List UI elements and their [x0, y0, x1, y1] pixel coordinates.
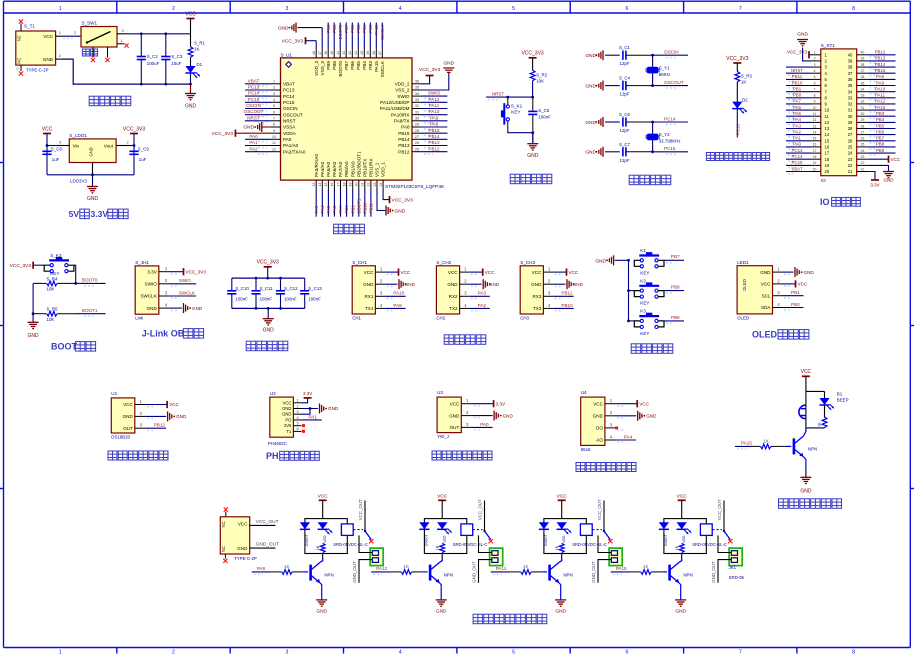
svg-text:2: 2	[172, 649, 175, 654]
svg-text:1uF: 1uF	[139, 157, 147, 162]
svg-text:JK1: JK1	[729, 565, 737, 570]
svg-text:PB5: PB5	[356, 24, 361, 33]
ST1 pin 11	[811, 115, 821, 117]
svg-text:Vout: Vout	[104, 143, 114, 148]
svg-text:PA9: PA9	[876, 80, 885, 85]
wire and net OSCOUT	[653, 85, 689, 87]
svg-text:VCC: VCC	[677, 494, 688, 500]
svg-text:PA12: PA12	[376, 566, 387, 571]
svg-text:13: 13	[813, 124, 817, 128]
svg-text:PC14: PC14	[792, 154, 804, 159]
svg-text:VSS_1: VSS_1	[375, 162, 380, 177]
svg-text:PB7: PB7	[344, 24, 349, 33]
alarm emitter to ground	[804, 457, 806, 471]
svg-text:PA4: PA4	[320, 205, 325, 214]
svg-text:VDD_2: VDD_2	[395, 82, 410, 87]
svg-text:6: 6	[814, 81, 816, 85]
svg-text:PA9: PA9	[430, 115, 439, 120]
svg-text:SWIO: SWIO	[397, 94, 410, 99]
svg-text:NC: NC	[221, 546, 226, 552]
svg-text:26: 26	[415, 141, 419, 145]
svg-text:PA15: PA15	[875, 105, 886, 110]
svg-text:3: 3	[59, 140, 61, 145]
terminal block PA8	[370, 548, 383, 566]
capacitor S_C5	[532, 97, 534, 111]
svg-text:42: 42	[348, 51, 352, 55]
svg-text:31: 31	[848, 108, 853, 113]
svg-text:VSS_2: VSS_2	[395, 88, 410, 93]
svg-text:8: 8	[852, 649, 855, 654]
svg-text:6: 6	[273, 110, 275, 114]
svg-text:PB8: PB8	[671, 285, 680, 290]
svg-text:10uF: 10uF	[171, 61, 181, 66]
svg-text:GND_OUT: GND_OUT	[711, 561, 716, 583]
svg-text:17: 17	[813, 149, 817, 153]
transistor NPN PA15	[681, 554, 683, 559]
U1 pin 5 (OSCIN)	[271, 108, 281, 110]
J-Link JH1 body	[135, 266, 159, 314]
ground GND relay PA11	[555, 599, 566, 601]
svg-text:23: 23	[848, 157, 853, 162]
wire LED D2 to PC13	[736, 108, 738, 137]
ground GND below U1 (VSS_1)	[385, 206, 387, 216]
svg-text:23: 23	[373, 183, 377, 187]
relay switch PA11	[592, 529, 602, 531]
svg-text:6: 6	[625, 6, 628, 12]
ground GND relay PA15	[675, 599, 686, 601]
svg-text:IO: IO	[820, 197, 830, 207]
svg-text:S_R2: S_R2	[536, 72, 548, 77]
svg-text:1N4007: 1N4007	[544, 534, 548, 546]
svg-text:PA3: PA3	[314, 205, 319, 214]
U2 pin3 gnd join wire	[302, 409, 311, 415]
net BOOT1 wire	[76, 313, 106, 315]
svg-text:SWCLK: SWCLK	[380, 24, 385, 40]
svg-text:5: 5	[512, 649, 515, 654]
ST1 pin 38	[857, 66, 868, 68]
svg-text:GND: GND	[449, 413, 460, 418]
svg-text:KEY: KEY	[640, 270, 649, 275]
ST1 pin 39	[857, 60, 868, 62]
svg-text:PB15: PB15	[875, 68, 886, 73]
svg-text:NRST: NRST	[791, 68, 803, 73]
svg-text:19: 19	[813, 161, 817, 165]
resistor S_R1	[190, 34, 192, 47]
svg-text:36: 36	[848, 77, 853, 82]
svg-text:SWIO: SWIO	[145, 282, 158, 287]
svg-text:PB5: PB5	[876, 123, 885, 128]
wire and net OSCIN	[653, 54, 689, 56]
wire and net PC15	[653, 151, 689, 153]
svg-text:U2: U2	[270, 391, 276, 396]
relay PA15 VCC_OUT wire	[723, 501, 725, 532]
svg-text:29: 29	[861, 118, 865, 122]
capacitor S_C12	[280, 278, 282, 291]
svg-text:S_CH3: S_CH3	[520, 260, 535, 265]
svg-text:30: 30	[415, 117, 419, 121]
ground GND filter	[267, 308, 269, 318]
svg-text:13: 13	[825, 126, 830, 131]
ST1 pin 18	[811, 158, 821, 160]
svg-text:GND: GND	[263, 328, 275, 334]
svg-text:SRD-05: SRD-05	[729, 575, 745, 580]
svg-text:LED: LED	[682, 535, 686, 542]
ST1 pin 14	[811, 134, 821, 136]
U2 pin6 no-connect	[302, 430, 305, 433]
ST1 pin 8	[811, 97, 821, 99]
svg-text:PA2: PA2	[478, 303, 487, 308]
net PA12 base wire	[371, 571, 390, 573]
svg-text:5: 5	[512, 6, 515, 12]
connector TYPE-C-2P output body	[220, 517, 249, 554]
svg-text:PB5: PB5	[356, 61, 361, 70]
svg-text:2: 2	[273, 86, 275, 90]
svg-text:S_CH2: S_CH2	[436, 260, 451, 265]
svg-text:22: 22	[367, 183, 371, 187]
svg-text:2: 2	[172, 6, 175, 12]
svg-text:1N4007: 1N4007	[664, 534, 668, 546]
serial CH1 body	[352, 266, 375, 314]
ST1 pin 17	[811, 152, 821, 154]
terminal PA15 upper wire	[718, 535, 731, 552]
keys left rail	[628, 260, 630, 321]
base resistor 1K PA15	[630, 571, 641, 573]
svg-text:7: 7	[739, 649, 742, 654]
svg-text:PC15: PC15	[664, 146, 676, 151]
svg-text:1: 1	[59, 6, 62, 12]
ST1 pin 4	[811, 72, 821, 74]
LED D2	[732, 102, 742, 109]
svg-text:17: 17	[336, 183, 340, 187]
alarm base resistor 1K	[735, 445, 752, 447]
svg-text:24: 24	[379, 183, 383, 187]
svg-text:PC13: PC13	[283, 88, 295, 93]
svg-text:PA10: PA10	[429, 109, 440, 114]
svg-text:BOOT0: BOOT0	[338, 61, 343, 77]
header ST1 body	[821, 49, 857, 176]
svg-text:1K: 1K	[284, 564, 289, 569]
svg-text:32: 32	[848, 102, 853, 107]
LED PA8	[318, 522, 328, 529]
ground GND reset	[532, 133, 534, 144]
transistor NPN PA8	[322, 554, 324, 559]
svg-text:GND: GND	[585, 84, 596, 90]
connector S_T1 bottom no-connect pin	[20, 65, 22, 71]
net VCC_OUT wire	[250, 524, 276, 526]
svg-text:OSCOUT: OSCOUT	[664, 80, 684, 85]
svg-text:PA10: PA10	[393, 291, 404, 296]
svg-text:28: 28	[861, 124, 865, 128]
relay coil PA8	[341, 524, 353, 536]
switch bottom pin no-connect a	[92, 47, 94, 58]
svg-text:VCC: VCC	[238, 522, 248, 527]
svg-text:S_C3: S_C3	[171, 54, 183, 59]
svg-text:18: 18	[813, 155, 817, 159]
svg-text:GND_OUT: GND_OUT	[256, 542, 280, 548]
svg-text:PH: PH	[266, 451, 279, 461]
svg-text:VCC_3V3: VCC_3V3	[10, 263, 32, 269]
svg-text:PA4/A0: PA4/A0	[320, 161, 325, 177]
svg-text:GND: GND	[884, 178, 895, 183]
crystal S_Y2	[652, 122, 654, 134]
svg-text:32: 32	[415, 104, 419, 108]
svg-text:NRST: NRST	[492, 91, 505, 96]
svg-text:PB7: PB7	[876, 136, 885, 141]
svg-text:BOOT1: BOOT1	[356, 198, 361, 213]
resistor 1K PA12	[440, 543, 445, 552]
crystal S_Y1	[652, 55, 654, 67]
U1 pin 28 (PB15)	[412, 132, 422, 134]
svg-text:LED: LED	[442, 535, 446, 542]
resistor 1K PA11	[559, 543, 564, 552]
svg-text:PA15: PA15	[374, 24, 379, 35]
svg-text:VCC: VCC	[185, 12, 196, 18]
svg-text:PB15: PB15	[428, 128, 440, 133]
transistor NPN PA11	[561, 554, 563, 559]
switch pin 1 no-connect	[117, 43, 124, 45]
resistor 1K PA8	[320, 543, 325, 552]
U1 pin 7 (NRST)	[271, 120, 281, 122]
svg-text:18: 18	[825, 157, 830, 162]
terminal block PA15	[729, 548, 742, 566]
U1 pin 8 (VSSA)	[271, 126, 281, 128]
svg-text:17: 17	[825, 151, 830, 156]
U2 pin5 no-connect	[302, 424, 305, 427]
svg-text:VCC_3V3: VCC_3V3	[521, 51, 543, 57]
resistor 1K PA15	[679, 543, 684, 552]
svg-text:5: 5	[296, 422, 298, 426]
svg-text:5: 5	[273, 104, 275, 108]
svg-text:GND: GND	[797, 32, 808, 38]
svg-text:26: 26	[861, 137, 865, 141]
LED D1	[185, 66, 195, 73]
svg-text:GND: GND	[28, 333, 40, 339]
ST1 pin 23	[857, 158, 868, 160]
svg-text:VCC: VCC	[318, 494, 329, 500]
svg-text:12pF: 12pF	[620, 92, 630, 97]
power port 3.3V for U2	[302, 398, 308, 403]
svg-text:1N4007: 1N4007	[305, 534, 309, 546]
svg-text:TX2: TX2	[449, 306, 458, 311]
wire K3 to net PB9	[664, 320, 684, 322]
svg-text:3.3V: 3.3V	[496, 401, 506, 406]
svg-text:SRD-05VDC-SL-C: SRD-05VDC-SL-C	[453, 542, 488, 547]
relay PA15 emitter to ground	[679, 583, 681, 600]
svg-text:BEEP: BEEP	[837, 398, 849, 403]
U1 pin 26 (PB13)	[412, 145, 422, 147]
svg-text:8: 8	[273, 123, 275, 127]
svg-text:35: 35	[861, 81, 865, 85]
capacitor S_C8	[42, 150, 51, 152]
svg-text:GND: GND	[585, 53, 596, 59]
svg-text:VCC_OUT: VCC_OUT	[478, 499, 483, 520]
switch pin 3 wire to VCC rail	[117, 33, 128, 35]
svg-text:OSCIN: OSCIN	[664, 50, 679, 55]
svg-text:VCC_3V3: VCC_3V3	[392, 198, 414, 204]
net PA15 base wire	[611, 571, 630, 573]
svg-text:1K: 1K	[194, 47, 199, 52]
svg-text:2: 2	[127, 140, 129, 145]
ST1 pin 24	[857, 152, 868, 154]
svg-text:36: 36	[861, 75, 865, 79]
U1 pin 10 (PA0)	[271, 138, 281, 140]
svg-text:VCC_3V3: VCC_3V3	[186, 269, 207, 274]
filter top rail	[232, 277, 305, 279]
relay switch PA8	[353, 529, 363, 531]
svg-text:BOOT: BOOT	[51, 342, 78, 352]
svg-text:SDA: SDA	[761, 305, 771, 310]
svg-text:S_C5: S_C5	[538, 108, 550, 113]
svg-text:PB9: PB9	[326, 61, 331, 70]
svg-text:8: 8	[852, 6, 855, 12]
svg-text:VDD_1: VDD_1	[381, 162, 386, 177]
svg-text:PC15: PC15	[283, 100, 295, 105]
svg-text:VCC: VCC	[42, 127, 53, 133]
svg-text:PB0: PB0	[793, 93, 802, 98]
wire T1 GND pin to bottom rail	[56, 58, 63, 60]
svg-text:LED: LED	[323, 535, 327, 542]
U1 pin 1 (VBAT)	[271, 83, 281, 85]
svg-text:PB10/TX: PB10/TX	[362, 159, 367, 177]
svg-text:3.3V: 3.3V	[870, 183, 879, 188]
net PA8 base wire	[252, 571, 271, 573]
svg-text:GND_OUT: GND_OUT	[591, 561, 596, 583]
alarm bottom rail	[806, 427, 825, 429]
svg-text:PA0: PA0	[283, 137, 292, 142]
svg-text:1K: 1K	[764, 439, 769, 444]
svg-text:PA11: PA11	[875, 93, 886, 98]
alarm top rail	[806, 390, 825, 392]
power port VCC_3V3 below U1 (VDD_1)	[389, 196, 391, 203]
svg-text:GND: GND	[593, 414, 604, 419]
capacitor S_C4	[622, 81, 624, 90]
module U4 body	[581, 397, 605, 445]
svg-text:PA2: PA2	[793, 129, 802, 134]
svg-text:39: 39	[861, 57, 865, 61]
ST1 pin 37	[857, 72, 868, 74]
svg-text:9: 9	[814, 100, 816, 104]
svg-text:27: 27	[415, 135, 419, 139]
relay PA12 VCC_OUT wire	[484, 501, 486, 532]
title 温度检测模块	[108, 451, 117, 460]
svg-text:CH2: CH2	[436, 315, 445, 320]
diode 1N4007 PA15	[659, 522, 669, 529]
svg-text:PB1: PB1	[350, 205, 355, 214]
U1 pin 35 (VSS_2)	[412, 89, 422, 91]
svg-text:PA2/TX/A0: PA2/TX/A0	[283, 149, 306, 154]
svg-text:PB9: PB9	[326, 24, 331, 33]
diode 1N4007 PA12	[419, 522, 429, 529]
svg-text:GND: GND	[800, 489, 812, 495]
svg-text:PB7: PB7	[344, 61, 349, 70]
svg-text:31: 31	[415, 110, 419, 114]
resistor S_R4	[33, 282, 41, 284]
svg-text:GND: GND	[282, 406, 291, 411]
ST1 pin 6	[811, 85, 821, 87]
svg-text:S_U1: S_U1	[281, 53, 293, 58]
svg-text:PB12: PB12	[428, 146, 440, 151]
svg-text:35: 35	[415, 86, 419, 90]
serial CH2 body	[436, 266, 459, 314]
svg-text:VCC: VCC	[448, 270, 458, 275]
svg-text:39: 39	[366, 51, 370, 55]
net PA1 wire (U2 PO)	[302, 419, 322, 421]
svg-text:22: 22	[861, 161, 865, 165]
capacitor S_C7	[622, 147, 624, 156]
svg-text:VCC: VCC	[43, 34, 53, 39]
svg-text:GND: GND	[43, 57, 54, 62]
svg-text:RX3: RX3	[532, 294, 541, 299]
svg-text:PA8: PA8	[257, 566, 266, 571]
svg-text:19: 19	[825, 163, 830, 168]
svg-text:U3: U3	[437, 390, 443, 395]
svg-text:PA0: PA0	[480, 422, 489, 427]
svg-text:OSCOUT: OSCOUT	[244, 109, 264, 114]
svg-text:7: 7	[814, 88, 816, 92]
svg-text:1: 1	[59, 30, 61, 35]
module U2 body PH4502C	[270, 397, 294, 437]
svg-text:1: 1	[814, 51, 816, 55]
svg-text:31: 31	[861, 106, 865, 110]
svg-text:TYPE-C-2P: TYPE-C-2P	[26, 68, 49, 73]
svg-text:SRD-05VDC-SL-C: SRD-05VDC-SL-C	[333, 542, 368, 547]
ST1 pin 13	[811, 128, 821, 130]
svg-text:VCC: VCC	[593, 401, 603, 406]
svg-text:PB9: PB9	[671, 315, 680, 320]
svg-text:1: 1	[121, 38, 123, 43]
svg-text:S_C2: S_C2	[147, 54, 159, 59]
push button S_K1	[507, 97, 509, 105]
svg-text:KEY: KEY	[640, 331, 649, 336]
svg-text:PB4: PB4	[362, 61, 367, 70]
U1 pin 3 (PC14)	[271, 95, 281, 97]
svg-text:PB11: PB11	[561, 291, 572, 296]
svg-text:VCC: VCC	[283, 400, 292, 405]
capacitor S_C2	[140, 32, 143, 35]
svg-text:SRD-05VDC-SL-C: SRD-05VDC-SL-C	[692, 542, 727, 547]
ST1 pin 21	[857, 171, 868, 173]
transistor Q alarm NPN	[804, 428, 806, 436]
svg-text:PA0: PA0	[249, 134, 258, 139]
svg-text:32.768KHz: 32.768KHz	[659, 139, 681, 144]
diode 1N4007 PA11	[539, 522, 549, 529]
svg-text:PC13: PC13	[735, 123, 740, 135]
svg-text:5V: 5V	[69, 209, 80, 219]
svg-text:VCC: VCC	[801, 369, 812, 375]
ground GND relay PA12	[436, 599, 447, 601]
svg-text:TYPE-C-2P: TYPE-C-2P	[234, 556, 257, 561]
svg-text:GND: GND	[573, 282, 584, 287]
serial CH3 body	[520, 266, 543, 314]
svg-text:14: 14	[825, 132, 830, 137]
svg-text:S_C6: S_C6	[619, 112, 631, 117]
relay PA15 frame	[664, 519, 706, 554]
ST1 pin 30	[857, 115, 868, 117]
U1 pin 31 (PA10/RX)	[412, 114, 422, 116]
U1 pin 36 (VDD_2)	[412, 83, 422, 85]
OLED LED1 body	[737, 266, 772, 314]
svg-text:PB11/RX: PB11/RX	[369, 158, 374, 177]
svg-text:PB13: PB13	[398, 143, 410, 148]
svg-text:11: 11	[825, 114, 830, 119]
svg-text:2: 2	[59, 53, 61, 58]
net GND_OUT wire	[250, 547, 276, 549]
svg-text:S_C9: S_C9	[138, 146, 150, 151]
svg-text:LED1: LED1	[737, 260, 749, 265]
svg-text:S_C8: S_C8	[51, 146, 63, 151]
svg-text:IO: IO	[821, 178, 826, 183]
svg-text:VCC_3V3: VCC_3V3	[212, 131, 234, 137]
